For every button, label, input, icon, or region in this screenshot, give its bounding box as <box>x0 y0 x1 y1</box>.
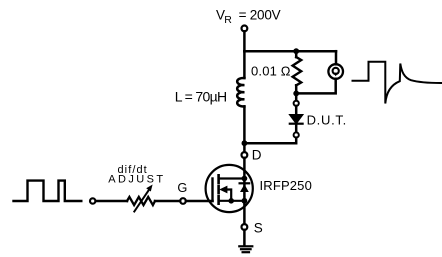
input square wave <box>14 181 82 201</box>
node D terminal <box>242 152 248 158</box>
svg-text:S: S <box>254 220 263 235</box>
svg-text:ADJUST: ADJUST <box>108 173 163 185</box>
wire top rail <box>244 50 336 53</box>
node source link junction <box>242 198 248 204</box>
node G terminal <box>180 198 186 204</box>
wire D terminal into mosfet <box>243 158 246 179</box>
current probe dot marker <box>333 73 338 77</box>
wire junction to drain terminal <box>243 143 246 152</box>
wire pot to G terminal <box>155 200 180 203</box>
node terminal below diode <box>294 132 299 137</box>
node junction bottom rail <box>242 140 248 146</box>
svg-text:G: G <box>177 180 187 195</box>
wire rail to CT <box>335 51 338 64</box>
current probe outer circle <box>328 64 343 79</box>
wire rail to inductor <box>243 51 246 78</box>
resistor R2 arrow <box>134 189 149 212</box>
node junction top of 0.01 ohm <box>293 48 299 54</box>
wire inductor to bottom rail junction <box>243 106 246 143</box>
mosfet channel segment middle <box>217 186 220 193</box>
svg-text:D: D <box>252 147 262 162</box>
wire drain-source line through mosfet <box>243 179 246 225</box>
wire VR terminal to top rail <box>243 31 246 51</box>
wire G terminal to gate bar <box>186 200 213 203</box>
wire terminal to diode <box>295 106 298 115</box>
wire S terminal to ground <box>243 230 246 246</box>
node drain link junction <box>242 176 248 182</box>
mosfet source link <box>219 200 245 202</box>
node VR terminal <box>242 26 248 32</box>
mosfet gate bar <box>211 179 213 202</box>
node body/source junction <box>228 198 234 204</box>
wire top rail junction to resistor <box>295 51 298 57</box>
mosfet body wire <box>227 190 231 201</box>
label VR = 200V <box>216 8 281 26</box>
wire junction to diode terminal <box>295 96 298 101</box>
svg-text:R: R <box>224 14 232 26</box>
wire lower terminal to bottom rail <box>244 138 296 144</box>
ground <box>239 246 252 252</box>
node S terminal <box>242 224 248 230</box>
node terminal above diode <box>294 101 299 106</box>
svg-text:L = 70µH: L = 70µH <box>175 89 227 105</box>
mosfet body diode cathode bar <box>240 182 250 184</box>
current probe inner circle <box>333 68 339 74</box>
wire CT to junction <box>296 79 336 94</box>
svg-text:0.01 Ω: 0.01 Ω <box>251 63 291 78</box>
wire diode to lower terminal <box>295 124 298 133</box>
mosfet channel segment bottom <box>217 196 220 203</box>
wire resistor to mid junction <box>295 85 298 93</box>
resistor R2 dif/dt adjust zigzag <box>127 197 155 205</box>
svg-text:IRFP250: IRFP250 <box>260 178 312 193</box>
svg-text:D.U.T.: D.U.T. <box>307 113 347 128</box>
mosfet drain link <box>219 177 245 179</box>
mosfet channel segment top <box>217 175 220 182</box>
svg-text:= 200V: = 200V <box>239 8 281 23</box>
mosfet body arrow <box>219 186 227 194</box>
output waveform <box>353 62 442 104</box>
mosfet body diode triangle <box>240 184 249 192</box>
node junction resistor/CT/diode <box>293 91 299 97</box>
node input terminal <box>90 198 95 203</box>
mosfet Q1 envelope circle <box>206 165 253 212</box>
resistor R1 0.01 ohm <box>293 57 302 85</box>
diode D.U.T. <box>290 115 303 124</box>
inductor L1 coil <box>237 78 244 106</box>
wire input terminal to pot <box>95 200 127 203</box>
